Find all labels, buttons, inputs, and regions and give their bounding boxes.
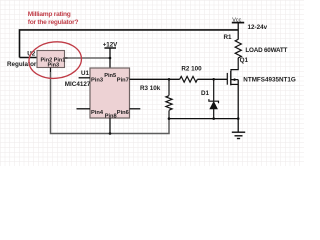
node junction R3 top [168,78,171,81]
drain bend from R1 [231,58,238,71]
svg-text:12-24v: 12-24v [248,24,268,31]
ground [232,119,245,139]
node junction Pin8 / gray rail [109,132,112,135]
svg-text:NTMFS4935NT1G: NTMFS4935NT1G [243,77,296,84]
power Vcc symbol [232,17,244,39]
svg-text:Pin4: Pin4 [91,110,104,116]
node junction D1 bottom [212,117,215,120]
node junction D1 top [212,78,215,81]
wire regulator output to +12V node (gray net) [68,57,111,59]
node junction at regulator output [109,57,112,60]
body lead [231,79,238,81]
svg-text:U1: U1 [81,70,89,77]
wire R2 to Q1 gate [197,78,227,80]
svg-text:MIC4127: MIC4127 [65,81,91,88]
annotation red ellipse around regulator [27,40,83,81]
resistor R2 [180,76,198,82]
regulator U2 [37,51,65,69]
node junction source/ground [237,117,240,120]
wire +12V down to U1 top pin [109,48,111,68]
resistor R3 [166,79,172,118]
svg-text:Pin8: Pin8 [105,114,117,120]
svg-text:Milliamp rating: Milliamp rating [28,11,71,18]
wire regulator left pin [20,57,38,59]
svg-text:Pin3: Pin3 [91,78,103,84]
power +12V symbol [103,41,118,48]
op-amp driver U1 MIC4127 [90,68,130,120]
wire regulator Pin3 stub [50,68,52,73]
wire U1 Pin6 stub [130,108,141,110]
diode D1 zener [209,79,219,118]
svg-text:+12V: +12V [103,41,118,48]
wire U1 Pin8 down to gray rail [109,118,111,134]
wire bottom rail (source net) [169,118,238,120]
svg-text:Pin3: Pin3 [47,62,59,68]
svg-text:LOAD 60WATT: LOAD 60WATT [245,47,287,54]
svg-text:D1: D1 [201,90,210,97]
svg-text:Pin7: Pin7 [117,78,129,84]
svg-text:Pin6: Pin6 [117,110,129,116]
body/source vertical bus [237,80,239,119]
transistor Q1 NMOS [227,58,238,119]
resistor R1 [235,39,241,58]
wire U1 Pin4 stub [77,108,91,110]
wire top rail from regulator input to Vcc [20,30,239,58]
gate bar [226,73,228,85]
svg-text:Q1: Q1 [240,57,249,64]
svg-text:Pin5: Pin5 [104,73,116,79]
wire regulator Pin1 stub [65,57,68,59]
channel bar [230,71,232,85]
svg-text:R3 10k: R3 10k [140,85,161,92]
svg-text:R2 100: R2 100 [181,66,202,73]
svg-text:Regulator: Regulator [7,61,37,68]
source lead [231,83,238,85]
node junction R3 bottom [168,117,171,120]
wire U1 Pin7 to R2 [130,78,180,80]
body arrow [232,78,236,81]
svg-text:Vcc: Vcc [232,17,241,23]
wire gray ground return from regulator Pin3 [51,72,170,134]
svg-text:R1: R1 [224,34,233,41]
wire U1 Pin3 stub [79,77,90,79]
svg-text:for the regulator?: for the regulator? [28,19,79,26]
